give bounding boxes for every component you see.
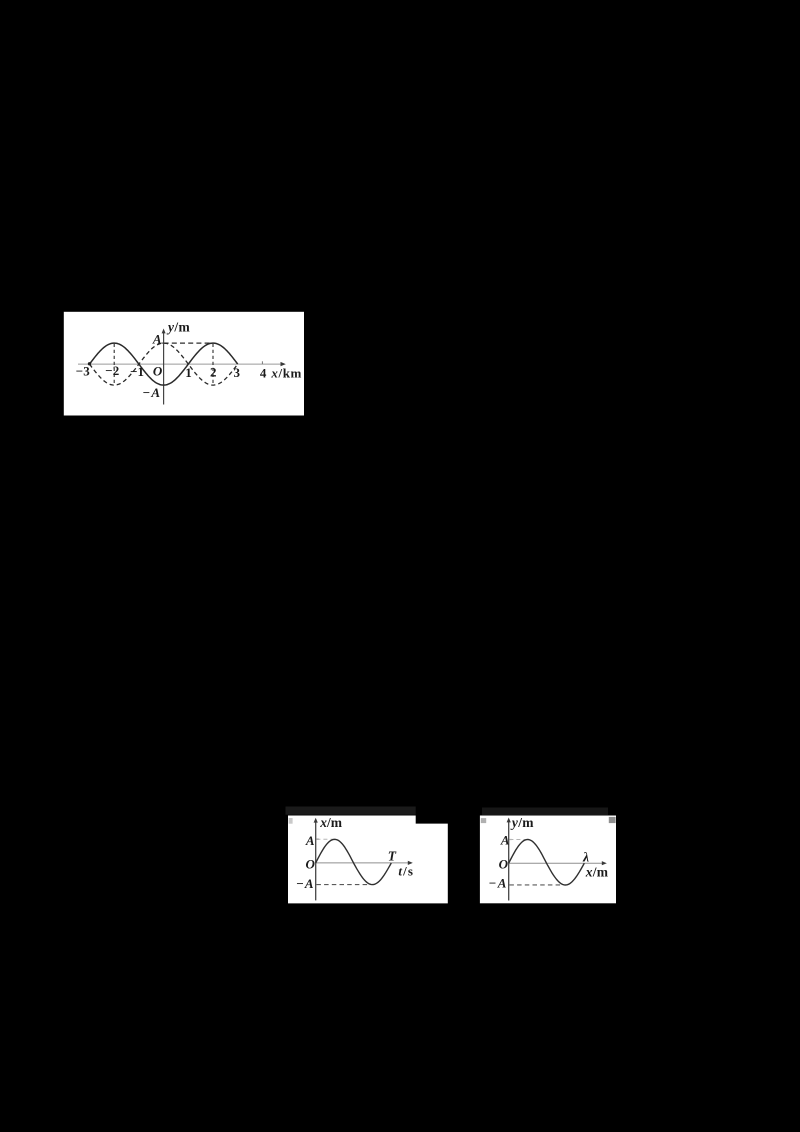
figure 1 label 2 [210, 365, 217, 380]
figure 3 tick at A on y-axis [509, 839, 511, 841]
figure 1 x-axis [78, 362, 286, 366]
figure 1 label -A [143, 385, 161, 400]
figure 3 gray corner square right [609, 817, 616, 823]
figure 1 label -2 [105, 363, 119, 378]
figure 2 sine curve [316, 839, 392, 884]
figure 1 label O [153, 363, 163, 378]
svg-text:x/m: x/m [319, 815, 343, 830]
svg-text:2: 2 [210, 365, 217, 380]
figure 2 label t/s [398, 864, 414, 879]
svg-text:y/m: y/m [510, 815, 534, 830]
svg-text:1: 1 [185, 365, 192, 380]
figure 1 tick x=4 [261, 361, 263, 364]
figure 1 label 4 [260, 366, 267, 381]
figure 2 dashed line at -A [316, 884, 369, 886]
figure 3 label lambda [582, 849, 589, 864]
figure 2 tick at A on y-axis [316, 838, 318, 840]
figure 1 white panel [64, 312, 304, 416]
figure 2 label x/m [319, 815, 343, 830]
figure 1 tick at A on y-axis [161, 342, 163, 344]
svg-text:−2: −2 [105, 363, 119, 378]
figure 2 label A [305, 833, 315, 848]
figure 2 label O [306, 856, 316, 871]
figure 2 dashed line at A [316, 838, 336, 840]
figure 3 label A [500, 833, 510, 848]
svg-text:−A: −A [296, 876, 313, 891]
svg-text:4: 4 [260, 366, 267, 381]
figure 1 y-axis [162, 329, 166, 405]
figure 1 label y/m [166, 320, 191, 335]
svg-text:O: O [153, 363, 163, 378]
figure 2 dark strip above panel [286, 807, 416, 815]
figure 1 label -1 [130, 364, 144, 379]
figure 3 white panel [480, 816, 616, 904]
svg-text:−A: −A [489, 875, 507, 890]
figure 3 label x/m [585, 864, 609, 879]
figure 3 label -A [489, 875, 507, 890]
figure 1 endpoint dot at (-3,0) [88, 362, 91, 365]
svg-text:t/s: t/s [398, 864, 414, 879]
figure 1 label x/km [270, 366, 302, 381]
figure 1 label A [152, 331, 162, 346]
svg-text:−3: −3 [76, 364, 90, 379]
svg-text:3: 3 [234, 365, 241, 380]
figure 2 label -A [296, 876, 313, 891]
figure 1 label 3 [234, 365, 241, 380]
figure 1 dashed horizontal at y=A [164, 342, 213, 344]
figure 3 dark strip above panel [482, 808, 608, 816]
figure 2 label T [388, 849, 397, 864]
figure 3 gray corner square left [481, 818, 486, 823]
figure 3 dashed line at A [509, 839, 529, 841]
svg-text:T: T [388, 849, 397, 864]
figure 3 label O [499, 856, 509, 871]
figure 2 x-axis [316, 861, 413, 865]
figure 1 dashed wave curve [90, 343, 238, 385]
svg-text:λ: λ [582, 849, 589, 864]
figure 1 label -3 [76, 364, 90, 379]
figure 1 dashed vertical at x=2 [212, 344, 214, 385]
figure 2 white panel [288, 816, 448, 904]
svg-text:A: A [305, 833, 315, 848]
figure 2 gray corner square [289, 818, 293, 824]
figure 1 dashed vertical at x=-2 [113, 344, 115, 385]
figure 3 label y/m [510, 815, 534, 830]
figure 3 x-axis [509, 861, 607, 865]
svg-text:x/m: x/m [585, 864, 609, 879]
svg-text:A: A [500, 833, 510, 848]
svg-text:x/km: x/km [270, 366, 302, 381]
figure 1 solid wave curve [90, 343, 238, 385]
svg-text:A: A [152, 331, 162, 346]
svg-text:O: O [499, 856, 509, 871]
figure 3 sine curve [509, 840, 585, 886]
figure 3 dashed line at -A [509, 884, 562, 886]
figure 2 y-axis [314, 818, 318, 901]
figure 3 y-axis [507, 818, 511, 901]
svg-text:O: O [306, 856, 316, 871]
svg-text:−A: −A [143, 385, 161, 400]
svg-text:−1: −1 [130, 364, 144, 379]
svg-text:y/m: y/m [166, 320, 191, 335]
figure 1 label 1 [185, 365, 192, 380]
